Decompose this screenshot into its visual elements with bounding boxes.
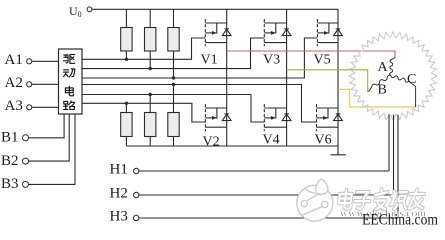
- wire phase C (yellow) from V5/V6 node to motor: [338, 89, 416, 107]
- watermark char 烧: [390, 191, 409, 209]
- wire bottom source rail: [126, 145, 338, 147]
- svg-text:B2: B2: [1, 153, 19, 169]
- junction node J4: [172, 83, 175, 86]
- wire gate line 3 to V5: [82, 38, 317, 78]
- motor M stator (zigzag circle): [349, 32, 437, 120]
- wire phase column A (drain-source bus): [226, 9, 228, 146]
- transistor V5 (power MOSFET): [317, 19, 338, 46]
- resistor R4 (lower gate pull-down): [121, 113, 132, 137]
- transistor V6 (power MOSFET): [317, 104, 339, 131]
- wire B1 to driver bottom: [29, 114, 65, 138]
- wire R5 top stub: [149, 95, 151, 113]
- svg-text:C: C: [407, 72, 416, 87]
- svg-text:A3: A3: [5, 98, 23, 114]
- wire R6 top stub: [173, 85, 175, 113]
- watermark char 友: [408, 189, 425, 208]
- wire R1 bottom stub: [125, 51, 127, 59]
- wire hall sensor lead H2: [393, 115, 395, 196]
- svg-text:V2: V2: [203, 135, 220, 150]
- wire phase column C (drain-source bus): [337, 9, 339, 146]
- wire R4 top stub: [125, 103, 127, 112]
- inductor winding C: [391, 76, 416, 107]
- diode D1 (body diode of V1): [222, 29, 231, 36]
- svg-text:H3: H3: [110, 209, 128, 225]
- wire H2 line: [139, 194, 394, 196]
- svg-text:B: B: [378, 83, 387, 98]
- diode D4 (body diode of V4): [282, 114, 291, 121]
- wire hall sensor lead H1: [388, 115, 390, 172]
- svg-text:V3: V3: [263, 52, 280, 67]
- wire phase A (red) from V1/V2 node to motor: [227, 51, 395, 58]
- inductor winding A: [390, 58, 395, 76]
- resistor R1 (upper gate pull-up): [121, 28, 132, 52]
- driver block text 驱: [64, 55, 75, 64]
- svg-text:V5: V5: [314, 52, 331, 67]
- svg-text:H1: H1: [110, 162, 128, 178]
- transistor V1 (power MOSFET): [205, 19, 226, 46]
- wire gate line 2 to V3: [82, 38, 264, 69]
- wire gate line 1 to V1: [82, 38, 205, 59]
- transistor V2 (power MOSFET): [205, 104, 226, 131]
- wire R2 top stub: [149, 9, 151, 27]
- wire phase B (green) from V3/V4 node to motor: [287, 70, 368, 92]
- wire A1 to driver: [32, 60, 59, 62]
- svg-text:B1: B1: [1, 130, 19, 146]
- wire R1 top stub: [125, 9, 127, 27]
- diode D3 (body diode of V3): [282, 29, 291, 36]
- driver block text 路: [64, 101, 75, 109]
- watermark char 电: [338, 190, 353, 208]
- ground: [331, 146, 346, 155]
- junction node J3: [172, 76, 175, 79]
- driver block text 电: [65, 86, 73, 96]
- wire B3 to driver bottom: [29, 114, 75, 184]
- svg-text:A: A: [378, 60, 389, 75]
- wire phase column B (drain-source bus): [286, 9, 288, 146]
- transistor V4 (power MOSFET): [264, 104, 286, 131]
- svg-text:V1: V1: [201, 52, 218, 67]
- wire gate line 5 to V4: [82, 95, 264, 123]
- resistor R2 (upper gate pull-up): [145, 28, 156, 52]
- wire R3 bottom stub: [173, 51, 175, 78]
- watermark char 发: [373, 189, 388, 209]
- diode D2 (body diode of V2): [222, 114, 231, 121]
- wire hall sensor lead H3: [397, 115, 399, 219]
- wire R4 bottom stub: [125, 137, 127, 147]
- svg-text:A2: A2: [5, 75, 23, 91]
- junction node J2: [149, 67, 152, 70]
- svg-text:EEChina.com: EEChina.com: [362, 212, 438, 229]
- svg-text:A1: A1: [5, 52, 23, 68]
- junction node J6: [125, 102, 128, 105]
- wire top DC bus rail: [92, 8, 338, 10]
- wire R6 bottom stub: [173, 137, 175, 147]
- diode D6 (body diode of V6): [334, 114, 343, 121]
- svg-text:V6: V6: [315, 133, 332, 148]
- wire A2 to driver: [32, 83, 59, 85]
- wire H3 line: [139, 217, 398, 219]
- diode D5 (body diode of V5): [334, 29, 343, 36]
- inductor winding B: [368, 75, 391, 91]
- wire R3 top stub: [173, 9, 175, 27]
- op-amp U1 drive circuit block 驱动电路: [59, 49, 83, 114]
- watermark char 子: [353, 192, 370, 209]
- wire gate line 4 to V6: [82, 85, 317, 123]
- svg-text:V4: V4: [263, 133, 280, 148]
- watermark logo circle: [297, 179, 333, 221]
- wire R2 bottom stub: [149, 51, 151, 69]
- wire H1 line: [139, 170, 389, 172]
- wire gate line 6 to V2: [82, 103, 205, 122]
- junction node J5: [149, 93, 152, 96]
- svg-text:H2: H2: [110, 186, 128, 202]
- transistor V3 (power MOSFET): [264, 19, 286, 46]
- wire B2 to driver bottom: [29, 114, 70, 161]
- resistor R6 (lower gate pull-down): [168, 113, 179, 137]
- resistor R3 (upper gate pull-up): [168, 28, 179, 52]
- resistor R5 (lower gate pull-down): [145, 113, 156, 137]
- svg-text:B3: B3: [1, 176, 19, 192]
- wire R5 bottom stub: [149, 137, 151, 147]
- junction node J1: [125, 58, 128, 61]
- wire A3 to driver: [32, 106, 59, 108]
- driver block text 动: [64, 69, 75, 77]
